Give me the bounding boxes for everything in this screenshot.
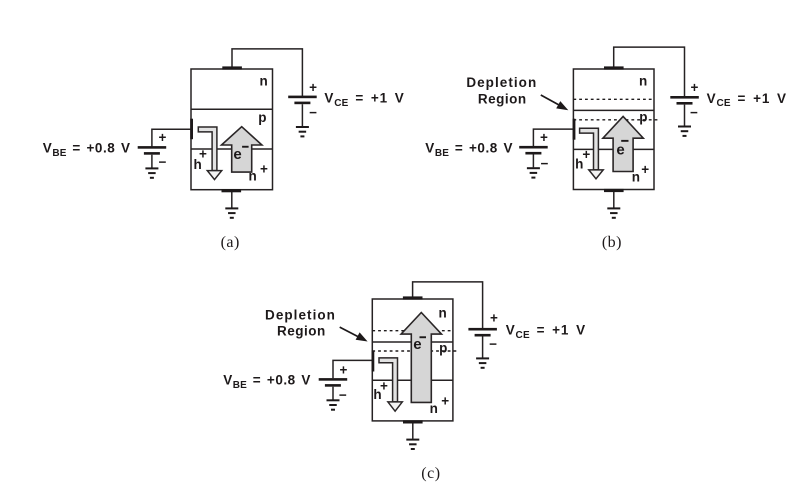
svg-text:VBE = +0.8 V: VBE = +0.8 V	[223, 373, 311, 391]
svg-text:n: n	[430, 401, 438, 416]
svg-text:(a): (a)	[221, 234, 240, 251]
transistor body (a)	[191, 69, 273, 190]
svg-text:+: +	[441, 394, 449, 409]
wire emitter to ground (a)	[231, 191, 233, 208]
svg-text:+: +	[158, 130, 166, 145]
hole arrow shaft (c)	[379, 358, 398, 402]
collector contact (b)	[604, 66, 624, 69]
svg-text:−: −	[339, 387, 347, 402]
svg-text:−: −	[489, 336, 497, 351]
ground VBE (c)	[327, 399, 340, 410]
hole arrow head (b)	[589, 170, 603, 179]
svg-text:−: −	[540, 156, 548, 171]
battery VBE (c) wire to ground	[332, 387, 334, 400]
svg-text:+: +	[691, 80, 699, 95]
battery VCE (a) long plate	[288, 96, 317, 99]
svg-text:−: −	[309, 105, 317, 120]
svg-text:e: e	[616, 142, 624, 159]
svg-text:VBE = +0.8 V: VBE = +0.8 V	[425, 141, 513, 159]
electron arrow (b)	[603, 116, 643, 171]
svg-text:(c): (c)	[421, 465, 440, 482]
hole arrow head (c)	[388, 402, 402, 411]
battery VBE (a) wire to ground	[151, 155, 153, 168]
junction p/n+ (a)	[191, 148, 273, 150]
svg-text:e: e	[413, 336, 421, 353]
wire collector loop (c)	[413, 282, 483, 329]
depletion boundary upper dashed (b)	[573, 98, 654, 100]
ground VBE (a)	[145, 167, 158, 178]
svg-text:Depletion: Depletion	[265, 308, 336, 323]
svg-text:p: p	[439, 341, 447, 356]
svg-text:VCE = +1 V: VCE = +1 V	[324, 90, 404, 108]
svg-text:+: +	[340, 362, 348, 377]
junction p/n+ (c)	[372, 379, 453, 381]
label minus of e (c)	[420, 336, 427, 338]
collector contact (a)	[222, 66, 242, 69]
depletion boundary lower dashed (c)	[372, 350, 458, 352]
svg-text:n: n	[248, 168, 256, 183]
svg-text:Depletion: Depletion	[466, 75, 537, 90]
electron arrow (c)	[401, 313, 441, 403]
ground emitter (a)	[225, 207, 238, 218]
emitter contact (c)	[403, 420, 423, 423]
ground VCE (b)	[678, 126, 691, 137]
battery VCE (b) wire to ground	[684, 105, 686, 126]
wire emitter to ground (c)	[412, 422, 414, 439]
svg-text:VCE = +1 V: VCE = +1 V	[506, 323, 586, 341]
battery VCE (b) short plate	[677, 102, 693, 105]
wire collector loop (b)	[614, 47, 685, 97]
ground VCE (c)	[476, 357, 489, 368]
battery VCE (a) short plate	[294, 102, 310, 105]
svg-text:+: +	[380, 378, 388, 393]
depletion pointer arrow (b)	[541, 95, 560, 105]
ground emitter (b)	[607, 207, 620, 218]
junction n/p (a)	[191, 108, 273, 110]
depletion boundary lower dashed (b)	[573, 119, 659, 121]
emitter contact (a)	[222, 189, 242, 192]
svg-text:−: −	[158, 155, 166, 170]
battery VCE (c) short plate	[475, 334, 491, 337]
svg-text:Region: Region	[277, 324, 326, 339]
svg-text:p: p	[639, 110, 647, 125]
battery VCE (b) long plate	[670, 96, 699, 99]
depletion pointer arrow (c)	[340, 327, 359, 337]
electron arrow (a)	[222, 127, 262, 172]
svg-text:Region: Region	[478, 92, 527, 107]
label minus of e (b)	[621, 140, 628, 142]
ground VBE (b)	[527, 167, 540, 178]
svg-text:+: +	[309, 80, 317, 95]
transistor body (c)	[372, 299, 453, 421]
ground emitter (c)	[406, 439, 419, 450]
collector contact (c)	[403, 296, 423, 299]
battery VBE (b) long plate	[519, 146, 548, 149]
wire base from VBE battery (b)	[533, 129, 573, 146]
battery VCE (c) wire to ground	[482, 337, 484, 358]
depletion boundary upper dashed (c)	[372, 330, 453, 332]
hole arrow head (a)	[207, 171, 221, 180]
svg-text:+: +	[199, 146, 207, 161]
svg-text:+: +	[641, 162, 649, 177]
battery VBE (c) long plate	[319, 378, 348, 381]
junction p/n+ (b)	[573, 148, 654, 150]
svg-text:−: −	[690, 105, 698, 120]
svg-text:(b): (b)	[602, 234, 622, 251]
svg-text:+: +	[490, 311, 498, 326]
battery VBE (a) long plate	[138, 146, 167, 149]
battery VBE (b) wire to ground	[532, 155, 534, 168]
wire base from VBE battery (a)	[152, 129, 191, 146]
battery VBE (a) short plate	[144, 152, 160, 155]
svg-text:VBE = +0.8 V: VBE = +0.8 V	[43, 141, 131, 159]
svg-text:+: +	[540, 130, 548, 145]
svg-text:+: +	[260, 161, 268, 176]
wire emitter to ground (b)	[613, 191, 615, 208]
wire collector loop (a)	[232, 49, 302, 97]
base contact (a)	[190, 119, 193, 140]
base contact (c)	[372, 351, 375, 372]
transistor body (b)	[573, 69, 654, 190]
emitter contact (b)	[604, 189, 624, 192]
battery VBE (c) short plate	[325, 384, 341, 387]
base contact (b)	[573, 119, 576, 140]
battery VCE (a) wire to ground	[301, 104, 303, 126]
ground VCE (a)	[296, 126, 309, 137]
svg-text:n: n	[438, 305, 446, 320]
svg-text:n: n	[259, 73, 267, 88]
label minus of e (a)	[242, 146, 249, 148]
battery VBE (b) short plate	[525, 152, 541, 155]
svg-text:+: +	[582, 147, 590, 162]
wire base from VBE battery (c)	[333, 360, 372, 378]
svg-text:n: n	[632, 169, 640, 184]
svg-text:n: n	[639, 74, 647, 89]
svg-text:e: e	[233, 146, 241, 163]
hole arrow shaft (b)	[580, 128, 599, 170]
junction n/p (b)	[573, 109, 654, 111]
hole arrow shaft (a)	[198, 127, 217, 171]
battery VCE (c) long plate	[468, 328, 497, 331]
svg-text:VCE = +1 V: VCE = +1 V	[707, 91, 787, 109]
svg-text:p: p	[258, 110, 266, 125]
junction n/p (c)	[372, 341, 453, 343]
